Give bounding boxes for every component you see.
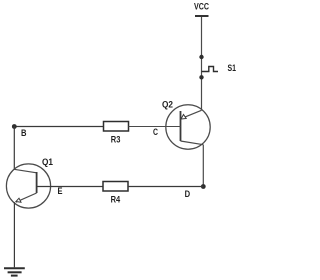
svg-text:Q1: Q1 (42, 157, 54, 168)
svg-text:D: D (185, 189, 191, 200)
svg-text:VCC: VCC (194, 1, 209, 12)
svg-text:C: C (153, 127, 158, 138)
svg-text:S1: S1 (228, 63, 237, 74)
svg-text:R4: R4 (111, 194, 121, 205)
svg-text:R3: R3 (111, 134, 121, 145)
svg-text:E: E (58, 186, 63, 197)
svg-text:Q2: Q2 (162, 99, 173, 110)
svg-text:B: B (21, 128, 27, 139)
